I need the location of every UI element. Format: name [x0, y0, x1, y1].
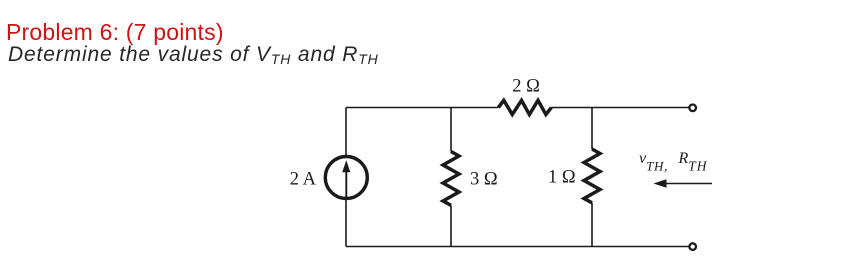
wire right lower — [591, 203, 593, 247]
wire bottom — [346, 246, 689, 248]
wire middle upper (3 ohm branch) — [450, 108, 452, 152]
svg-text:2 A: 2 A — [290, 170, 317, 190]
resistor R 2ohm (horizontal zigzag) — [498, 100, 551, 114]
terminal bottom-right — [689, 243, 696, 250]
resistor R 3ohm (vertical zigzag) — [443, 152, 459, 206]
terminal top-right — [689, 105, 696, 112]
svg-text:1 Ω: 1 Ω — [548, 168, 576, 188]
vth/rth arrow shaft — [662, 183, 712, 185]
wire top-left segment — [346, 107, 498, 109]
svg-text:RTH: RTH — [678, 150, 708, 173]
svg-text:3 Ω: 3 Ω — [470, 170, 498, 190]
svg-text:vTH,: vTH, — [639, 150, 668, 173]
wire left lower — [345, 199, 347, 247]
current source I1 circle — [325, 157, 367, 199]
wire top-right segment — [551, 107, 688, 109]
problem statement — [8, 43, 379, 67]
current source arrowhead — [342, 160, 350, 172]
resistor R 1ohm (vertical zigzag) — [584, 149, 600, 203]
wire middle lower — [450, 205, 452, 246]
wire left upper — [345, 108, 347, 157]
vth/rth arrowhead — [653, 179, 666, 188]
problem title — [6, 19, 224, 46]
svg-text:2 Ω: 2 Ω — [512, 77, 540, 97]
current source arrow shaft — [345, 170, 347, 197]
wire right upper (1 ohm branch) — [591, 108, 593, 150]
